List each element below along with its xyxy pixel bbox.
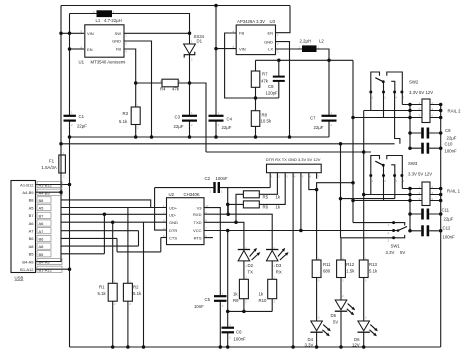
node USB B1-A12 <box>68 267 72 271</box>
wire D1 cathode to 12V row <box>189 55 191 84</box>
svg-text:C1: C1 <box>79 114 85 119</box>
node bottom bus: R1 <box>111 345 115 349</box>
svg-text:4.7-22µH: 4.7-22µH <box>104 18 122 23</box>
svg-text:B6: B6 <box>29 236 35 241</box>
svg-text:RAIL 1: RAIL 1 <box>447 189 461 194</box>
node RXD junction <box>226 212 230 216</box>
wire R5 left to TXD riser <box>236 194 243 222</box>
svg-text:F1: F1 <box>49 159 55 164</box>
wire VBUS top <box>61 5 290 7</box>
wire C12 leads <box>410 230 441 232</box>
node EN junction <box>68 47 72 51</box>
svg-text:5.1k: 5.1k <box>98 291 107 296</box>
svg-text:B5: B5 <box>29 252 35 257</box>
wire RAIL2 pin stubs right <box>430 105 441 118</box>
node bottom bus: D5 <box>339 345 343 349</box>
svg-text:C11: C11 <box>442 208 450 213</box>
node VIN junction left <box>59 32 63 36</box>
svg-text:B7: B7 <box>29 213 35 218</box>
svg-text:LX: LX <box>268 47 273 52</box>
svg-text:D6: D6 <box>354 337 360 342</box>
wire SW1 row1 <box>353 222 394 224</box>
svg-text:FB: FB <box>239 31 244 36</box>
wire header pin2 RX to R5 <box>259 179 277 195</box>
svg-text:VIN: VIN <box>239 47 246 52</box>
wire R6 left to RXD riser <box>228 204 243 214</box>
net label A8 <box>37 243 51 249</box>
svg-text:B1-A12: B1-A12 <box>20 267 34 272</box>
svg-text:C4: C4 <box>227 117 233 122</box>
wire R11 to D4 <box>316 278 318 348</box>
svg-text:RXD: RXD <box>193 212 202 217</box>
wire 12V feeder vertical <box>363 111 365 261</box>
svg-text:MT3540 Aerosemi: MT3540 Aerosemi <box>91 60 126 65</box>
svg-text:C6: C6 <box>236 330 242 335</box>
svg-text:A8: A8 <box>29 244 35 249</box>
resistor R4 <box>162 79 178 87</box>
wire RAIL1 pin stubs right <box>430 189 441 201</box>
svg-text:3.3V: 3.3V <box>386 250 395 255</box>
wire C6 column <box>227 311 229 347</box>
wire 3.3V bus <box>256 59 354 61</box>
resistor R12 <box>337 260 346 278</box>
node RAIL1 right rail dots <box>439 187 443 191</box>
wire SW3 pin3 drop to rail row <box>402 176 422 189</box>
svg-text:1.5A/3A: 1.5A/3A <box>42 165 57 170</box>
header DTR/RX/TX connector <box>267 164 322 173</box>
svg-text:V3: V3 <box>197 205 203 210</box>
wire U1 VIN row <box>61 32 84 34</box>
wire R13 to D6 <box>363 278 365 348</box>
wire SW3 pin2 drop / 3.3V row <box>353 176 422 201</box>
svg-text:USB: USB <box>15 276 24 281</box>
capacitor C9 <box>421 128 424 139</box>
svg-text:D2: D2 <box>248 263 254 268</box>
svg-text:10.5k: 10.5k <box>261 119 272 124</box>
resistor R3 <box>131 107 140 125</box>
svg-text:22µF: 22µF <box>222 125 232 130</box>
wire header pin1 DTR <box>269 179 271 188</box>
svg-text:R2: R2 <box>133 285 139 290</box>
net label A4-B9 <box>37 189 62 195</box>
svg-text:5V: 5V <box>400 250 405 255</box>
node GND/B6/R1 junction <box>111 220 115 224</box>
wire U3 GND descender <box>276 42 290 137</box>
node GND bus: R3 <box>134 135 138 139</box>
node 5V feeder tap <box>339 142 343 146</box>
svg-text:UD+: UD+ <box>169 205 178 210</box>
svg-text:12V: 12V <box>352 342 360 347</box>
svg-text:100nF: 100nF <box>216 176 229 181</box>
capacitor C1 <box>64 115 76 117</box>
net label A6 <box>37 220 51 226</box>
net label B8 <box>37 197 51 203</box>
svg-text:R3: R3 <box>123 111 129 116</box>
node bottom bus: header GND <box>291 345 295 349</box>
svg-text:2.2µH: 2.2µH <box>300 38 312 43</box>
svg-text:U1: U1 <box>79 60 85 65</box>
svg-text:22µF: 22µF <box>174 124 184 129</box>
svg-text:A4-B9: A4-B9 <box>22 190 34 195</box>
capacitor C10 <box>421 143 424 154</box>
wire C7 column <box>328 60 330 137</box>
wire USB B6 riser to GND row <box>62 238 161 252</box>
node 5V tap SW3 <box>339 197 343 201</box>
wire USB A6 riser <box>62 214 105 254</box>
wire USB A5 row to R2 <box>62 208 167 284</box>
wire USB A7 DTR riser <box>62 231 139 246</box>
svg-text:EN: EN <box>87 47 93 52</box>
node GND bus: U1 GND <box>150 135 154 139</box>
svg-text:RAIL 2: RAIL 2 <box>448 109 462 114</box>
svg-text:C12: C12 <box>443 226 451 231</box>
node USB GND row1 <box>68 183 72 187</box>
wire DTR drop to U2 <box>155 188 167 231</box>
svg-text:VIN: VIN <box>87 31 94 36</box>
svg-text:R12: R12 <box>346 262 354 267</box>
svg-text:10nF: 10nF <box>194 304 204 309</box>
wire header pin5 to VCC row <box>300 179 302 231</box>
wire C2 row <box>155 188 271 205</box>
wire USB VBUS row2 <box>36 191 62 193</box>
wire C11 leads <box>410 213 441 215</box>
svg-text:R9: R9 <box>233 298 239 303</box>
svg-text:5.1k: 5.1k <box>369 268 378 273</box>
op-amp U3 AP3429A box <box>236 25 275 55</box>
svg-text:R7: R7 <box>262 72 268 77</box>
svg-text:C2: C2 <box>205 176 211 181</box>
wire SW2 pin2 drop / 3.3V row <box>353 92 422 118</box>
svg-text:VCC: VCC <box>193 228 202 233</box>
svg-text:A5: A5 <box>29 205 35 210</box>
svg-text:R11: R11 <box>323 262 331 267</box>
wire RAIL1 left rail <box>409 189 411 231</box>
svg-text:B6: B6 <box>39 237 45 242</box>
resistor R7 <box>251 71 259 87</box>
wire SW2 pin1 drop / 12V row <box>364 92 422 111</box>
node top VBUS to U3 VIN <box>214 4 218 8</box>
net label B1-A12 <box>37 266 62 272</box>
wire 3V3 tap from rail to R11 <box>317 183 353 260</box>
wire GND bus A <box>70 136 330 138</box>
wire D2 cathode to R9 <box>243 261 245 312</box>
wire R7 bottom / R8 <box>255 87 257 137</box>
node FB/R4 junction <box>134 81 138 85</box>
LED D2 <box>238 248 261 261</box>
node bottom bus: C6 <box>226 345 230 349</box>
resistor R8 <box>251 111 259 127</box>
resistor R1 <box>108 283 117 301</box>
node RAIL2 left rail dots <box>408 103 412 107</box>
wire USB B8 row to UD+ <box>62 200 151 208</box>
node UD- junction <box>103 213 107 217</box>
svg-text:SW: SW <box>115 31 122 36</box>
wire C10 leads <box>410 147 441 149</box>
capacitor C5 <box>214 295 227 297</box>
node SW3 pin dots <box>369 174 372 177</box>
resistor R13 <box>359 260 368 278</box>
net label B7 <box>37 212 51 218</box>
svg-text:3.3V: 3.3V <box>305 342 314 347</box>
wire D3 cathode to R10 <box>271 261 273 312</box>
node SW1 pin1 <box>392 221 395 224</box>
wire U2 TXD row <box>204 222 244 249</box>
node GND bus: C4 <box>214 135 218 139</box>
svg-text:47k: 47k <box>261 79 269 84</box>
svg-text:SW3: SW3 <box>408 161 418 166</box>
svg-text:C8: C8 <box>268 84 274 89</box>
svg-text:FB: FB <box>116 47 121 52</box>
net label A1-B12 <box>37 181 62 187</box>
wire U1 FB to R3 <box>124 49 136 137</box>
svg-text:SW1: SW1 <box>391 243 401 248</box>
svg-text:D5: D5 <box>331 313 337 318</box>
resistor R11 <box>312 260 321 278</box>
svg-text:D1: D1 <box>197 39 203 44</box>
svg-text:R4: R4 <box>160 87 166 92</box>
wire U2 RTS stub <box>204 237 213 239</box>
svg-text:AP3429A 3.3V: AP3429A 3.3V <box>237 19 265 24</box>
resistor R5 <box>243 191 259 198</box>
svg-text:B8: B8 <box>29 198 35 203</box>
wire VBUS drop to C4 <box>215 6 217 138</box>
switch SW3 <box>371 156 403 176</box>
wire SW1 row3 <box>341 237 394 239</box>
LED D5 <box>335 300 355 315</box>
svg-text:A7: A7 <box>29 229 35 234</box>
wire RAIL2 left rail <box>409 105 411 149</box>
wire U3 FB loop <box>225 33 279 98</box>
node 12V feeder tap <box>362 150 366 154</box>
svg-text:C10: C10 <box>445 142 453 147</box>
node SW2 pin dots <box>369 91 372 94</box>
wire VBUS left vertical with F1 gap <box>36 6 62 262</box>
node GND bus: C3 <box>188 135 192 139</box>
wire SW2 pin4 drop to bus B <box>395 92 400 144</box>
wire U2 GND row <box>62 221 167 223</box>
node GND bus: R8 <box>254 135 258 139</box>
svg-text:A1-B12: A1-B12 <box>20 182 34 187</box>
svg-text:22µF: 22µF <box>314 125 324 130</box>
svg-text:DTR: DTR <box>169 228 177 233</box>
svg-text:47k: 47k <box>172 87 180 92</box>
svg-text:DTR RX TX GND 3.3V 5V 12V: DTR RX TX GND 3.3V 5V 12V <box>266 157 321 162</box>
wire C2 to RXD dot <box>227 204 229 214</box>
svg-text:C7: C7 <box>310 116 316 121</box>
node bottom bus: D6 <box>362 345 366 349</box>
svg-text:RX: RX <box>276 270 282 275</box>
wire R2 lower lead <box>127 301 129 347</box>
node bottom bus: U2 GND <box>142 345 146 349</box>
svg-text:A4-B9: A4-B9 <box>39 190 51 195</box>
svg-text:U2: U2 <box>169 192 175 197</box>
capacitor C3 <box>182 115 197 117</box>
node 3.3V tap SW2 <box>351 116 355 120</box>
wire header pin3 TX to R6 <box>259 179 285 205</box>
wire R1 drop <box>112 222 114 347</box>
wire 12V bus C <box>206 151 371 153</box>
wire 12V row R4 <box>136 83 206 152</box>
switch SW2 <box>371 72 403 92</box>
svg-text:22µF: 22µF <box>77 124 87 129</box>
connector RAIL2 <box>422 99 430 123</box>
svg-text:3.3V 5V 12V: 3.3V 5V 12V <box>409 90 433 95</box>
node FB divider junction <box>254 96 258 100</box>
svg-text:TX: TX <box>248 270 254 275</box>
svg-text:10: 10 <box>205 204 209 208</box>
wire R12 to D5 <box>340 278 342 348</box>
net label A7 <box>37 228 51 234</box>
svg-text:B4-A9: B4-A9 <box>39 260 51 265</box>
wire header pin6 row <box>309 179 317 190</box>
svg-text:3.3V 5V 12V: 3.3V 5V 12V <box>408 172 432 177</box>
node D1 cathode 12V junction <box>188 81 192 85</box>
net label B6 <box>37 235 51 241</box>
inductor L2 <box>302 45 317 52</box>
svg-text:D4: D4 <box>308 337 314 342</box>
wire VBUS bus B <box>61 143 395 145</box>
svg-text:CTS: CTS <box>169 236 177 241</box>
svg-text:R8: R8 <box>262 113 268 118</box>
wire R12 top feed <box>340 238 342 260</box>
wire right GND rail <box>440 105 442 348</box>
svg-text:CH340K: CH340K <box>184 192 200 197</box>
svg-text:R6: R6 <box>263 205 269 210</box>
node 3.3V tap rail <box>351 181 355 185</box>
svg-text:5V: 5V <box>333 320 338 325</box>
wire U3 LX to L2 <box>276 48 303 50</box>
LED D4 <box>310 321 330 336</box>
wire header pin4 GND drop <box>292 179 294 347</box>
wire U3 VIN row <box>216 48 236 50</box>
node VIN junction L1 branch <box>68 32 72 36</box>
wire U3 EN riser <box>276 6 291 33</box>
node SW/D1/L1 junction <box>188 32 192 36</box>
svg-text:A1-B12: A1-B12 <box>39 183 53 188</box>
svg-text:GND: GND <box>112 39 121 44</box>
node bottom bus: C5 <box>219 345 223 349</box>
capacitor C2 <box>213 182 215 193</box>
wire SW1 row2 from U2 VCC <box>204 230 394 232</box>
svg-text:GND: GND <box>264 39 273 44</box>
svg-text:B7: B7 <box>39 213 45 218</box>
svg-text:SW2: SW2 <box>409 80 419 85</box>
svg-text:B5: B5 <box>39 252 45 257</box>
svg-text:1.5k: 1.5k <box>346 268 355 273</box>
node SW1 pin3 <box>392 236 395 239</box>
svg-text:5.1k: 5.1k <box>119 119 128 124</box>
wire C3 column <box>189 83 191 137</box>
wire R9 R10 bottoms row <box>228 310 273 312</box>
svg-text:A5: A5 <box>39 206 45 211</box>
svg-text:120pF: 120pF <box>266 91 279 96</box>
svg-text:U3: U3 <box>270 19 276 24</box>
capacitor C4 <box>209 115 224 117</box>
node GND bus: C1 <box>68 135 72 139</box>
svg-text:L1: L1 <box>96 18 101 23</box>
svg-text:GND: GND <box>169 220 178 225</box>
wire U2 RXD row <box>204 214 272 249</box>
resistor R9 <box>239 279 248 298</box>
wire U2 GND descender <box>143 222 145 347</box>
wire L1 out to SW node <box>112 14 190 45</box>
svg-text:EN: EN <box>267 30 273 35</box>
node C8 top junction <box>277 59 281 63</box>
diode D1 SS34 <box>184 44 196 54</box>
svg-text:A8: A8 <box>39 244 45 249</box>
node C6 top junction <box>226 310 230 314</box>
node R6/C2 junction <box>226 203 230 207</box>
node U3 VIN row junction <box>214 47 218 51</box>
wire SW3 pin1 drop / 12V row <box>364 176 422 195</box>
capacitor C12 <box>421 225 424 236</box>
capacitor C7 <box>322 115 337 117</box>
wire C8 leads <box>278 60 280 98</box>
wire U2 CTS stub <box>161 237 167 239</box>
svg-text:22µF: 22µF <box>447 135 457 140</box>
node R9 bottom junction <box>242 310 246 314</box>
wire L2 out to 3.3V node <box>317 49 330 60</box>
svg-text:B8: B8 <box>39 198 45 203</box>
svg-text:R5: R5 <box>263 194 269 199</box>
node bottom bus: R2 <box>126 345 129 349</box>
connector USB box <box>11 181 36 273</box>
node VCC junction <box>226 229 230 233</box>
svg-text:R13: R13 <box>369 262 377 267</box>
svg-text:C9: C9 <box>445 128 451 133</box>
node 3.3V tap SW3 <box>351 199 355 203</box>
svg-text:TXD: TXD <box>194 220 202 225</box>
wire 3.3V vertical to SW1 <box>352 60 354 222</box>
node TXD junction <box>234 221 238 225</box>
svg-text:R10: R10 <box>259 298 267 303</box>
svg-text:100nF: 100nF <box>443 235 456 240</box>
svg-text:C5: C5 <box>205 297 211 302</box>
node USB VBUS row2 <box>59 190 63 194</box>
wire C9 leads <box>410 132 441 134</box>
resistor R10 <box>268 279 277 298</box>
node 3.3V header/R11 junction <box>315 188 319 192</box>
svg-text:C3: C3 <box>175 114 181 119</box>
wire USB B7 row to UD- <box>62 213 167 215</box>
LED D6 <box>358 321 378 336</box>
wire SW2 pin3 drop to rail row <box>402 92 422 105</box>
wire U2 VCC decouple drop <box>227 231 229 312</box>
node 12V tap SW3 <box>362 193 366 197</box>
wire bottom GND bus <box>70 346 441 348</box>
wire L1 input row <box>70 13 97 15</box>
svg-text:B1-A12: B1-A12 <box>39 267 53 272</box>
svg-text:R1: R1 <box>99 285 105 290</box>
capacitor C11 <box>421 209 424 220</box>
capacitor C6 <box>222 327 235 329</box>
wire 5V feeder vertical <box>340 144 342 238</box>
node VBUS bus tap <box>59 142 63 146</box>
svg-text:100nF: 100nF <box>445 149 458 154</box>
svg-text:5.1k: 5.1k <box>133 291 142 296</box>
node bottom bus: D4 <box>315 345 319 349</box>
node GND bus: U3 GND <box>288 135 292 139</box>
resistor R6 <box>243 201 259 208</box>
wire U2 V3 to C5 <box>204 208 220 347</box>
svg-text:A6: A6 <box>39 221 45 226</box>
svg-text:UD-: UD- <box>169 213 177 218</box>
op-amp U2 CH340K box <box>167 198 205 245</box>
LED D3 <box>266 248 289 261</box>
node RAIL1 left rail dots <box>408 187 412 191</box>
wire USB GND row1 <box>36 184 70 186</box>
op-amp U1 MT3540 box <box>85 25 124 57</box>
